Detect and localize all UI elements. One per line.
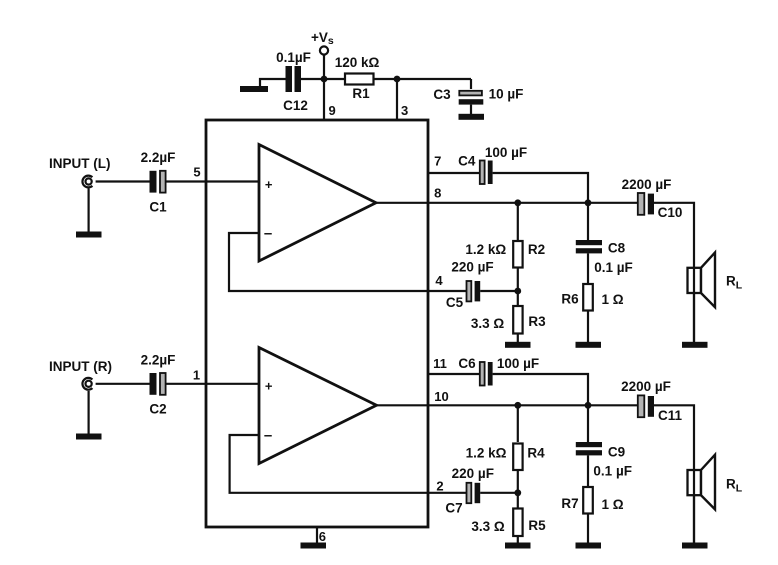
svg-text:120 kΩ: 120 kΩ xyxy=(335,55,380,70)
svg-text:220 µF: 220 µF xyxy=(451,260,493,275)
svg-text:2200 µF: 2200 µF xyxy=(622,177,672,192)
wire R2 to node xyxy=(517,268,519,307)
svg-text:R7: R7 xyxy=(561,496,578,511)
ground (C3) xyxy=(459,114,485,120)
wire jack L to C1 xyxy=(96,180,150,182)
node R2 top xyxy=(514,199,521,206)
svg-text:1 Ω: 1 Ω xyxy=(602,292,624,307)
speaker RL (bottom) xyxy=(688,455,743,510)
op-amp U1B xyxy=(259,348,377,464)
wire C4 to output node xyxy=(493,173,588,203)
svg-text:4: 4 xyxy=(435,273,443,288)
svg-text:10 µF: 10 µF xyxy=(489,87,524,102)
svg-text:C5: C5 xyxy=(446,295,464,310)
capacitor C4 100uF xyxy=(458,145,527,184)
wire speaker R to ground xyxy=(693,495,695,542)
svg-text:–: – xyxy=(264,225,272,242)
svg-text:3.3 Ω: 3.3 Ω xyxy=(471,316,505,331)
wire node to R4 xyxy=(517,405,519,442)
svg-text:R3: R3 xyxy=(528,314,546,329)
wire jack R to ground xyxy=(87,391,89,434)
svg-text:C3: C3 xyxy=(433,87,451,102)
capacitor C7 220uF xyxy=(445,466,494,516)
svg-text:3.3 Ω: 3.3 Ω xyxy=(471,519,505,534)
svg-text:3: 3 xyxy=(401,103,408,118)
feedback wire op-amp B (pin 2) xyxy=(230,435,467,493)
wire R1 to C3 drop xyxy=(374,78,472,80)
svg-text:0.1 µF: 0.1 µF xyxy=(593,464,632,479)
svg-text:C9: C9 xyxy=(608,445,625,460)
resistor R1 120k xyxy=(335,55,380,101)
capacitor C5 220uF xyxy=(446,260,494,311)
wire C7 to R4/R5 node xyxy=(480,492,518,494)
capacitor C10 2200uF xyxy=(622,177,683,220)
ground (R3) xyxy=(505,342,531,348)
resistor R6 1 ohm xyxy=(561,284,623,311)
svg-text:2.2µF: 2.2µF xyxy=(141,353,176,368)
capacitor C1 2.2uF xyxy=(141,150,176,215)
wire C9 to R7 xyxy=(587,455,589,486)
node C9 top xyxy=(585,402,592,409)
svg-text:10: 10 xyxy=(434,389,448,404)
capacitor C2 2.2uF xyxy=(141,353,176,417)
svg-text:C10: C10 xyxy=(658,205,683,220)
ground (speaker R) xyxy=(682,543,708,549)
node R4/R5/C7 xyxy=(514,489,521,496)
svg-text:9: 9 xyxy=(329,103,336,118)
wire R3 to ground xyxy=(517,334,519,343)
capacitor C12 0.1uF xyxy=(276,50,311,113)
svg-text:C1: C1 xyxy=(149,200,167,215)
capacitor C3 10uF xyxy=(433,87,523,115)
wire node to C9 xyxy=(587,405,589,442)
wire jack L to ground xyxy=(87,189,89,232)
wire C6 to output node xyxy=(493,374,588,405)
wire R5 to ground xyxy=(517,536,519,543)
wire C8 to R6 xyxy=(587,253,589,284)
wire node to R2 xyxy=(517,203,519,240)
wire C12 left to ground stub xyxy=(260,79,286,86)
wire speaker L to ground xyxy=(693,293,695,342)
wire C3 drop xyxy=(470,79,472,89)
wire C1 to op-amp + (pin 5) xyxy=(166,180,259,182)
input jack R xyxy=(82,378,92,390)
capacitor C8 0.1uF xyxy=(576,240,633,275)
svg-text:0.1 µF: 0.1 µF xyxy=(594,260,633,275)
svg-text:8: 8 xyxy=(434,186,441,201)
wire C5 to R2/R3 node xyxy=(480,290,518,292)
wire R7 to ground xyxy=(587,514,589,543)
wire R6 to ground xyxy=(587,311,589,343)
wire C10 to speaker L xyxy=(654,203,694,342)
resistor R7 1 ohm xyxy=(561,487,623,514)
pin 7 wire to C4 xyxy=(428,172,480,174)
svg-text:R2: R2 xyxy=(528,242,545,257)
wire pin 3 xyxy=(396,79,398,120)
ground (C12) xyxy=(240,86,268,92)
svg-text:INPUT (L): INPUT (L) xyxy=(49,156,111,171)
input jack L xyxy=(82,176,92,188)
resistor R4 1.2k xyxy=(466,444,546,471)
wire pin 9 xyxy=(323,79,325,120)
svg-text:5: 5 xyxy=(193,165,200,180)
svg-text:C8: C8 xyxy=(608,241,626,256)
svg-text:2: 2 xyxy=(436,479,443,494)
svg-text:R1: R1 xyxy=(352,86,370,101)
+Vs supply terminal xyxy=(311,30,334,55)
svg-text:100 µF: 100 µF xyxy=(485,145,527,160)
svg-text:R4: R4 xyxy=(527,446,545,461)
capacitor C11 2200uF xyxy=(621,379,682,423)
svg-text:100 µF: 100 µF xyxy=(497,356,539,371)
ground (R5) xyxy=(505,543,531,549)
svg-text:1: 1 xyxy=(193,368,200,383)
svg-text:1.2 kΩ: 1.2 kΩ xyxy=(465,242,506,257)
svg-text:+: + xyxy=(265,379,273,394)
ground (speaker L) xyxy=(682,342,708,348)
svg-text:C2: C2 xyxy=(149,402,166,417)
node junction at Vs xyxy=(321,76,328,83)
svg-text:C6: C6 xyxy=(458,356,476,371)
node R2/R3/C5 xyxy=(514,288,521,295)
resistor R5 3.3 ohm xyxy=(471,509,546,537)
svg-text:C7: C7 xyxy=(445,501,462,516)
svg-text:+: + xyxy=(265,177,273,192)
resistor R3 3.3 ohm xyxy=(471,306,546,334)
IC U1 outline xyxy=(206,120,428,527)
wire +Vs to rail xyxy=(323,55,325,79)
pin 10 output wire xyxy=(377,404,639,406)
svg-text:1.2 kΩ: 1.2 kΩ xyxy=(466,446,507,461)
pin 8 output wire xyxy=(376,202,638,204)
svg-text:0.1µF: 0.1µF xyxy=(276,50,311,65)
pin 6 wire xyxy=(316,527,318,543)
resistor R2 1.2k xyxy=(465,241,545,268)
svg-text:220 µF: 220 µF xyxy=(452,466,494,481)
wire C2 to op-amp + (pin 1) xyxy=(166,383,259,385)
ground (input L) xyxy=(76,232,102,238)
wire R4 to node xyxy=(517,470,519,509)
ground (pin 6) xyxy=(301,543,327,549)
ground (R7) xyxy=(576,543,602,549)
svg-text:1 Ω: 1 Ω xyxy=(602,497,624,512)
svg-text:C4: C4 xyxy=(458,154,476,169)
op-amp U1A xyxy=(259,145,376,262)
node C8 top xyxy=(585,199,592,206)
wire jack R to C2 xyxy=(96,383,150,385)
node R4 top xyxy=(514,402,521,409)
node junction at pin 3 xyxy=(394,76,401,83)
wire top rail C12 to R1 xyxy=(301,78,345,80)
svg-text:6: 6 xyxy=(319,529,326,544)
pin 11 wire to C6 xyxy=(428,373,480,375)
wire C11 to speaker R xyxy=(654,405,694,542)
capacitor C6 100uF xyxy=(458,356,539,386)
svg-text:C11: C11 xyxy=(658,408,683,423)
capacitor C9 0.1uF xyxy=(576,442,632,479)
speaker RL (top) xyxy=(688,253,743,308)
svg-text:R5: R5 xyxy=(528,518,546,533)
svg-text:INPUT (R): INPUT (R) xyxy=(49,359,112,374)
svg-text:7: 7 xyxy=(434,154,441,169)
svg-text:2200 µF: 2200 µF xyxy=(621,379,671,394)
svg-text:–: – xyxy=(264,427,272,444)
svg-text:11: 11 xyxy=(433,356,447,371)
feedback wire op-amp A (pin 4) xyxy=(229,233,467,291)
wire node to C8 xyxy=(587,203,589,240)
svg-text:2.2µF: 2.2µF xyxy=(141,150,176,165)
svg-text:C12: C12 xyxy=(283,98,308,113)
ground (R6) xyxy=(576,342,602,348)
svg-text:R6: R6 xyxy=(561,292,579,307)
ground (input R) xyxy=(76,434,102,440)
